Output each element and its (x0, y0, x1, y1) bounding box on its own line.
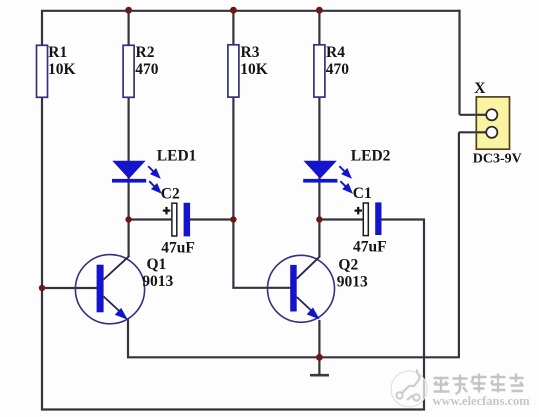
capacitor C2 (163, 203, 190, 237)
LED1 light arrows (148, 166, 160, 192)
svg-text:470: 470 (135, 61, 159, 78)
wire pin2 horizontal (459, 131, 488, 133)
node VCC/R2 (125, 7, 132, 14)
svg-text:LED1: LED1 (157, 148, 197, 165)
svg-text:470: 470 (326, 61, 350, 78)
ground bar (310, 374, 329, 377)
resistor R4 (314, 45, 325, 97)
wire C1 left (319, 218, 364, 220)
wire left column (R1 / Q1 base / bottom link) (41, 11, 43, 411)
svg-text:10K: 10K (240, 61, 268, 78)
svg-text:DC3-9V: DC3-9V (473, 152, 522, 167)
wire emitter ground rail (127, 356, 460, 358)
node VCC/R3 (230, 7, 237, 14)
svg-text:47uF: 47uF (353, 238, 387, 255)
svg-text:47uF: 47uF (161, 239, 195, 256)
svg-text:X: X (474, 80, 486, 97)
wire C1 right link (380, 218, 425, 220)
node Q1 collector / C2 (125, 216, 131, 222)
svg-text:LED2: LED2 (351, 148, 391, 165)
node Q2 base / C2 (230, 216, 236, 222)
wire bottom rail (C1 to Q1 base link) (41, 408, 425, 410)
wire pin2 vertical to ground rail (458, 132, 460, 357)
ground stub (318, 357, 320, 375)
LED LED1 (112, 161, 146, 183)
wire Q2 emitter drop (318, 320, 320, 357)
LED LED2 (303, 161, 337, 183)
wire Q1 emitter drop (127, 319, 129, 358)
wire pin2 stub inside connector (477, 131, 488, 133)
LED2 light arrows (339, 166, 351, 192)
pin 2 (486, 127, 497, 138)
svg-text:Q2: Q2 (338, 256, 358, 273)
resistor R2 (123, 45, 134, 97)
resistor R3 (228, 45, 239, 97)
resistor R1 (37, 45, 48, 97)
watermark elecfans logo (391, 370, 427, 408)
wire pin1 horizontal (460, 114, 489, 116)
pin 1 (486, 109, 497, 120)
wire pin1 stub inside connector (477, 114, 488, 116)
svg-text:C1: C1 (353, 185, 372, 202)
wire C1 drop vertical (423, 220, 425, 411)
watermark chinese characters (434, 374, 524, 395)
svg-text:R3: R3 (241, 44, 260, 61)
node Q1 base (39, 285, 45, 291)
node Q2 collector / C1 (316, 216, 322, 222)
wire C2 right (190, 218, 234, 220)
svg-text:www.elecfans.com: www.elecfans.com (433, 394, 531, 408)
svg-text:10K: 10K (48, 61, 76, 78)
wire column 4 (R4 / LED2 / Q2 collector) (318, 11, 320, 257)
svg-text:R1: R1 (48, 44, 67, 61)
transistor Q2 (268, 255, 335, 322)
node emitter/ground (316, 354, 323, 361)
node VCC/R4 (316, 7, 323, 14)
svg-text:C2: C2 (161, 186, 180, 203)
wire pin1 vertical from VCC rail (458, 10, 460, 115)
svg-text:Q1: Q1 (147, 256, 167, 273)
capacitor C1 (355, 202, 382, 235)
transistor Q1 (75, 255, 144, 324)
wire Q1 base (42, 287, 97, 289)
wire column 2 (R2 / LED1 / Q1 collector) (128, 11, 130, 258)
connector X (476, 97, 509, 149)
svg-text:R4: R4 (326, 44, 345, 61)
wire C2 left (129, 218, 173, 220)
svg-text:R2: R2 (136, 44, 155, 61)
wire top VCC rail (41, 10, 460, 12)
wire column 3 (R3 / Q2 base) (233, 11, 291, 288)
svg-text:9013: 9013 (337, 273, 368, 290)
svg-text:9013: 9013 (142, 273, 173, 290)
